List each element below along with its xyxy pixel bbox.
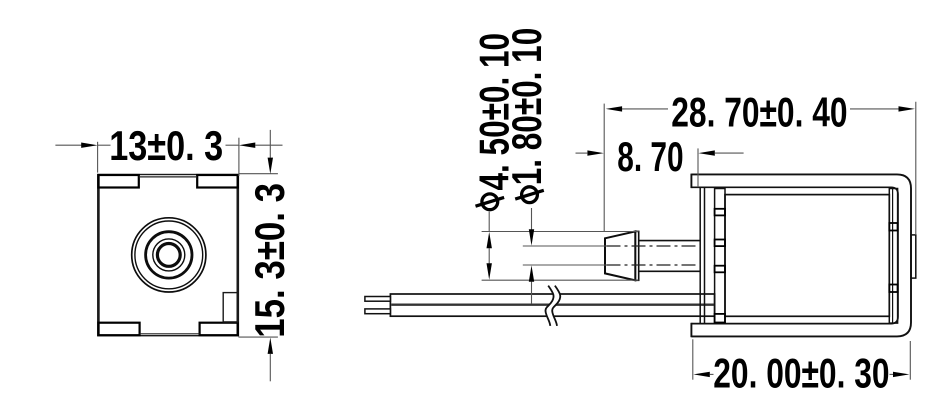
dimension 13±0.3 arrowheads [81,143,97,148]
side view bobbin left flange [715,189,725,324]
dimension 8.70 arrowheads [587,150,603,155]
side view yoke plate [700,187,704,323]
front view bottom-right tab [200,323,238,336]
front view body outline [98,175,239,336]
dimension phi1.80 extension line [531,208,533,304]
side view coil body [725,195,889,317]
front view inner bottom edge line [140,333,200,335]
dimension phi1.80 symbol [515,187,544,203]
side view bracket inner [691,187,898,323]
wires band [390,294,714,316]
svg-text:28. 70±0. 40: 28. 70±0. 40 [671,88,847,135]
dimension 28.70±0.40 arrowheads [606,106,622,111]
wire break mask [545,286,560,326]
wires middle separation [391,304,714,306]
side view right flange tabs [889,223,897,292]
side view left flange tabs [715,209,725,323]
wire break curve right [552,286,560,326]
side view right flange inner line [892,189,894,324]
side view bobbin right flange [889,189,897,324]
plunger shaft [639,241,701,272]
dimension phi1.80 arrowheads [529,229,534,245]
dimension 8.70 extension lines [576,104,744,232]
dimension 15.3±0.3 extension lines [239,130,278,381]
plunger centerlines [523,246,607,265]
front view top-right tab [197,175,238,188]
side view bracket top end [690,174,692,189]
wire break curve left [545,286,553,326]
dimension 15.3±0.3 arrowheads [268,158,273,174]
svg-text:13±0. 3: 13±0. 3 [109,123,223,170]
wire bare tip upper [365,297,391,302]
dimension phi4.50 extension lines [482,212,639,281]
dimension 28.70±0.40 lines [622,108,899,110]
svg-text:15. 3±0. 3: 15. 3±0. 3 [247,183,294,338]
side view bracket outer [691,174,911,336]
dimension phi4.50 arrowheads [487,232,492,248]
dimension 20.00±0.30 extension lines [693,339,911,379]
dimension 20.00±0.30 arrowheads [693,372,709,377]
plunger cap [635,231,638,280]
dimension 13±0.3 extension lines [55,138,282,176]
front view plunger circles [132,218,206,292]
dimension 28.70±0.40 extension line [915,102,917,235]
side view right protrusion [911,235,916,278]
svg-text:8. 70: 8. 70 [617,133,683,180]
wire bare tip lower [365,309,391,314]
side view bracket bottom end [690,323,692,337]
front view inner top edge line [139,176,197,178]
front view small side plate [223,293,238,322]
dimension phi4.50 symbol [476,194,505,210]
svg-text:20. 00±0. 30: 20. 00±0. 30 [713,349,889,396]
front view bottom-left tab [98,323,139,336]
front view top-left tab [98,175,138,188]
svg-text:1. 80±0. 10: 1. 80±0. 10 [503,28,550,186]
